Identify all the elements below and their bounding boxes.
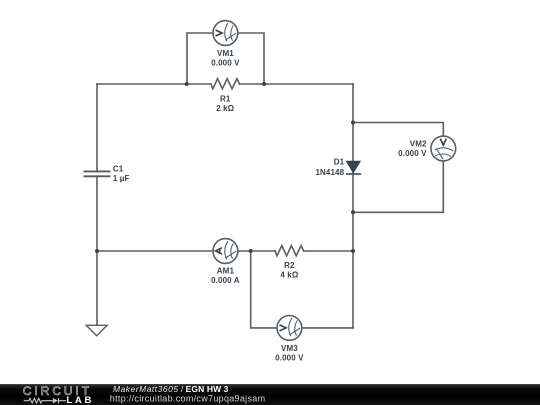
- CircuitLab logo circuit glyph (diode): [53, 398, 58, 403]
- svg-text:4 kΩ: 4 kΩ: [280, 271, 298, 280]
- wire VM3 loop: [251, 251, 353, 328]
- svg-text:VM2: VM2: [410, 140, 427, 149]
- svg-text:0.000 V: 0.000 V: [398, 149, 427, 158]
- svg-text:VM3: VM3: [281, 344, 298, 353]
- wire top horizontal right segment: [239, 83, 353, 85]
- svg-text:0.000 A: 0.000 A: [211, 276, 240, 285]
- diode D1: [346, 161, 361, 174]
- voltmeter VM1: [213, 21, 238, 46]
- ground: [86, 325, 107, 336]
- wire bottom horizontal left segment: [97, 250, 275, 252]
- wire top horizontal left segment: [97, 83, 211, 85]
- svg-text:VM1: VM1: [217, 49, 234, 58]
- svg-text:http://circuitlab.com/cw7upqa9: http://circuitlab.com/cw7upqa9ajsam: [110, 393, 266, 403]
- node top-left junction: [185, 82, 189, 86]
- node bottom-mid junction: [249, 249, 253, 253]
- svg-text:MakerMatt3605 / EGN HW 3: MakerMatt3605 / EGN HW 3: [113, 384, 229, 394]
- svg-text:C1: C1: [113, 164, 124, 173]
- ammeter AM1: [213, 239, 238, 264]
- voltmeter VM3: [277, 316, 302, 341]
- svg-text:1 µF: 1 µF: [113, 174, 130, 183]
- node bottom-right junction: [351, 249, 355, 253]
- svg-text:AM1: AM1: [217, 267, 235, 276]
- node top-right junction: [262, 82, 266, 86]
- resistor R2: [275, 246, 304, 256]
- wire right vertical: [352, 84, 354, 328]
- wire bottom horizontal right segment: [304, 250, 353, 252]
- svg-text:2 kΩ: 2 kΩ: [216, 104, 234, 113]
- CircuitLab logo circuit glyph (resistor zigzag): [24, 398, 53, 403]
- svg-text:D1: D1: [334, 158, 345, 167]
- svg-text:R1: R1: [220, 95, 231, 104]
- footer bar: [0, 384, 540, 405]
- svg-text:0.000 V: 0.000 V: [275, 354, 304, 363]
- resistor R1: [211, 79, 240, 89]
- wire VM2 loop: [353, 123, 443, 213]
- node right middle junction: [351, 210, 355, 214]
- svg-text:R2: R2: [284, 261, 295, 270]
- svg-text:1N4148: 1N4148: [315, 168, 344, 177]
- capacitor C1: [84, 171, 111, 176]
- node bottom-left junction: [95, 249, 99, 253]
- wire VM1 loop: [187, 33, 264, 84]
- wire left vertical upper (to C1): [96, 84, 98, 171]
- svg-text:0.000 V: 0.000 V: [211, 59, 240, 68]
- node right upper junction: [351, 121, 355, 125]
- svg-text:LAB: LAB: [66, 395, 94, 405]
- voltmeter VM2: [431, 136, 456, 161]
- wire left vertical lower (C1 to ground): [96, 177, 98, 325]
